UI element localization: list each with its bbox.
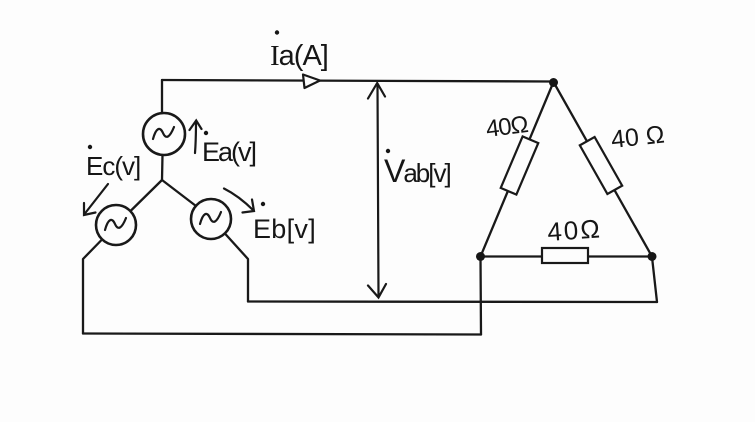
svg-text:Eb[v]: Eb[v] xyxy=(253,214,316,244)
svg-text:40Ω: 40Ω xyxy=(484,111,529,143)
svg-text:40Ω: 40Ω xyxy=(546,213,602,247)
svg-text:Vab[v]: Vab[v] xyxy=(384,153,450,189)
svg-text:40 Ω: 40 Ω xyxy=(610,121,666,154)
svg-text:Ec(v]: Ec(v] xyxy=(86,151,140,181)
svg-text:Ea(v]: Ea(v] xyxy=(202,137,256,167)
svg-text:Ia(A]: Ia(A] xyxy=(270,40,328,72)
